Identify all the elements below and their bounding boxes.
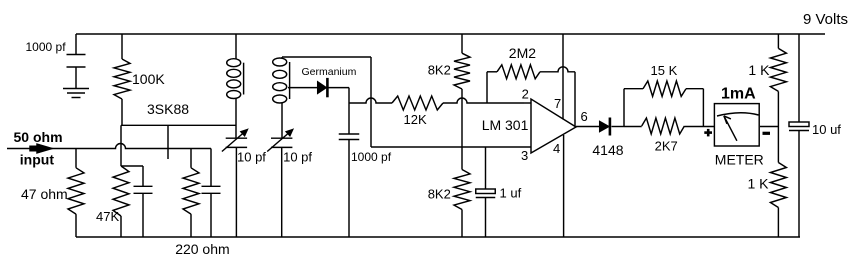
svg-text:8K2: 8K2	[428, 62, 451, 77]
svg-text:2M2: 2M2	[509, 45, 536, 61]
svg-text:2: 2	[522, 87, 529, 102]
svg-text:4: 4	[553, 141, 560, 156]
svg-text:2K7: 2K7	[655, 139, 678, 154]
svg-text:3: 3	[521, 148, 528, 163]
svg-text:12K: 12K	[404, 112, 427, 127]
svg-text:1 K: 1 K	[748, 176, 770, 192]
svg-text:6: 6	[581, 109, 588, 124]
svg-text:3SK88: 3SK88	[147, 101, 189, 117]
svg-text:1 K: 1 K	[748, 62, 770, 78]
svg-text:4148: 4148	[592, 142, 623, 158]
svg-text:100K: 100K	[132, 71, 165, 87]
svg-text:LM 301: LM 301	[482, 117, 529, 133]
svg-text:15 K: 15 K	[651, 63, 678, 78]
svg-text:1mA: 1mA	[721, 86, 756, 103]
svg-text:1000 pf: 1000 pf	[26, 40, 67, 54]
svg-text:47 ohm: 47 ohm	[21, 186, 68, 202]
svg-text:47K: 47K	[96, 209, 119, 224]
svg-text:input: input	[20, 152, 55, 168]
svg-text:10 pf: 10 pf	[237, 150, 266, 165]
svg-text:9 Volts: 9 Volts	[803, 11, 848, 28]
svg-text:1000 pf: 1000 pf	[351, 150, 392, 164]
svg-text:10 uf: 10 uf	[812, 122, 841, 137]
svg-text:7: 7	[554, 96, 561, 111]
svg-text:50 ohm: 50 ohm	[14, 129, 63, 145]
svg-text:1 uf: 1 uf	[500, 186, 522, 201]
svg-text:8K2: 8K2	[428, 186, 451, 201]
svg-text:Germanium: Germanium	[302, 66, 357, 78]
svg-text:10 pf: 10 pf	[283, 150, 312, 165]
svg-text:220 ohm: 220 ohm	[175, 241, 229, 257]
svg-text:METER: METER	[715, 152, 764, 168]
